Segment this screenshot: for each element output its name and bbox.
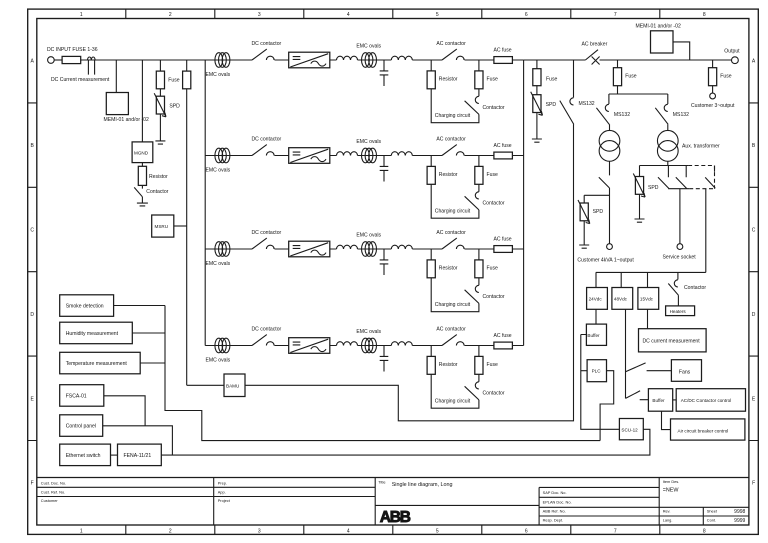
AC breaker	[585, 50, 599, 65]
svg-text:FENA-11/21: FENA-11/21	[124, 453, 152, 459]
svg-text:C: C	[752, 228, 756, 234]
svg-text:Resistor: Resistor	[149, 174, 168, 180]
AC SPD branch fuse	[536, 60, 538, 95]
svg-text:C: C	[30, 228, 34, 234]
24Vdc supply box	[595, 272, 597, 287]
svg-text:2: 2	[169, 528, 172, 534]
MS132 contactor Q3	[655, 104, 668, 124]
wire to MGND	[141, 60, 143, 142]
converter row 2	[205, 137, 523, 219]
FSCA-01 box	[60, 385, 104, 407]
wire MSRU to bus	[174, 225, 187, 227]
svg-text:PLC: PLC	[592, 369, 602, 374]
svg-text:BAMU: BAMU	[226, 384, 239, 389]
svg-text:A: A	[31, 59, 35, 65]
Buffer 2 box	[648, 389, 672, 412]
svg-text:Control panel: Control panel	[66, 424, 96, 430]
svg-text:Output: Output	[724, 49, 740, 55]
svg-text:B: B	[752, 143, 756, 149]
FENA to SCU wire	[161, 429, 650, 455]
svg-text:5: 5	[436, 528, 439, 534]
svg-text:Cust. Doc. No.: Cust. Doc. No.	[41, 480, 66, 485]
svg-text:Sheet: Sheet	[707, 509, 718, 514]
svg-text:D: D	[752, 312, 756, 318]
customer 1ph terminal	[607, 244, 613, 250]
service SPD	[639, 166, 641, 177]
DC current measurement box	[647, 309, 649, 328]
svg-text:SPD: SPD	[546, 102, 557, 108]
Humidity measurement box	[60, 322, 133, 344]
wire	[132, 332, 165, 334]
wire to MEMI-01	[115, 60, 117, 93]
converter row 1	[205, 41, 523, 123]
svg-text:MGND: MGND	[134, 151, 149, 156]
svg-text:9998: 9998	[734, 509, 745, 515]
svg-text:Lang.: Lang.	[663, 518, 673, 523]
svg-text:=NEW: =NEW	[663, 487, 680, 493]
border column ticks bottom	[126, 525, 660, 534]
wire	[111, 454, 118, 456]
svg-text:Fans: Fans	[679, 369, 691, 375]
svg-text:Contactor: Contactor	[146, 189, 168, 195]
PLC right wire	[600, 371, 614, 441]
svg-text:4: 4	[347, 528, 350, 534]
svg-text:A: A	[752, 59, 756, 65]
svg-text:Customer 3~output: Customer 3~output	[691, 103, 735, 109]
svg-text:9999: 9999	[734, 518, 745, 524]
svg-text:SCU-12: SCU-12	[621, 428, 638, 433]
svg-text:Item Des.: Item Des.	[663, 479, 680, 484]
svg-text:ABB: ABB	[380, 509, 411, 526]
transformer T2 aux	[667, 124, 669, 130]
svg-text:App.: App.	[218, 490, 226, 495]
svg-text:3: 3	[258, 528, 261, 534]
svg-text:Service socket: Service socket	[663, 255, 697, 261]
AC SPD	[531, 92, 543, 116]
Ethernet switch box	[60, 444, 111, 466]
Temperature measurement box	[60, 352, 141, 374]
svg-text:SPD: SPD	[169, 104, 180, 110]
svg-text:7: 7	[614, 528, 617, 534]
AC/DC contactor control box	[676, 389, 745, 412]
svg-text:DC current measurement: DC current measurement	[643, 338, 701, 344]
svg-text:SAP Doc. No.: SAP Doc. No.	[543, 490, 567, 495]
wire FSCA	[104, 396, 145, 426]
svg-text:EPLAN Doc. No.: EPLAN Doc. No.	[543, 500, 572, 505]
svg-text:Air circuit breaker control: Air circuit breaker control	[678, 429, 729, 434]
row letters left	[30, 59, 34, 487]
Air circuit breaker control box	[671, 419, 745, 440]
BAMU box	[224, 374, 245, 397]
MEMI-01 box	[106, 93, 128, 115]
MGND resistor	[141, 163, 143, 189]
transformer T1	[608, 124, 611, 130]
service socket bus	[668, 188, 689, 190]
svg-text:Customer 4kVA 1~output: Customer 4kVA 1~output	[577, 257, 634, 263]
ground	[159, 114, 161, 141]
svg-text:Rev.: Rev.	[663, 509, 671, 514]
splitter wire	[609, 94, 668, 104]
BAMU right wire to bus	[245, 124, 574, 421]
svg-text:6: 6	[525, 528, 528, 534]
svg-text:1: 1	[80, 12, 83, 18]
svg-text:Humidity measurement: Humidity measurement	[66, 331, 119, 337]
Smoke detection box	[60, 295, 114, 317]
title block verticals	[214, 478, 704, 526]
row letters right	[752, 59, 756, 487]
svg-text:MS132: MS132	[579, 101, 595, 107]
border column ticks top	[126, 9, 660, 18]
MEMI wire	[673, 42, 690, 60]
15Vdc supply box	[647, 272, 649, 287]
svg-text:DC Current measurement: DC Current measurement	[51, 77, 110, 83]
T2 bottom wire	[640, 161, 689, 165]
converter row 4	[205, 327, 523, 409]
DC current measurement CT	[88, 57, 96, 75]
svg-text:Buffer: Buffer	[587, 333, 600, 338]
customer 3ph terminal	[710, 93, 716, 99]
svg-text:Cust. Ref. No.: Cust. Ref. No.	[41, 490, 65, 495]
wire control panel	[103, 426, 173, 455]
svg-text:AC/DC Contactor control: AC/DC Contactor control	[681, 398, 732, 403]
main AC bus	[524, 59, 732, 61]
buffer2 right wire	[673, 399, 677, 401]
svg-text:Single line diagram, Long: Single line diagram, Long	[392, 482, 453, 488]
svg-text:Title: Title	[378, 480, 385, 485]
svg-text:AC breaker: AC breaker	[582, 41, 608, 47]
buffer left wire	[581, 335, 620, 430]
svg-text:E: E	[31, 396, 35, 402]
svg-text:4: 4	[347, 12, 350, 18]
svg-text:24Vdc: 24Vdc	[589, 297, 603, 302]
svg-text:F: F	[31, 481, 34, 487]
svg-text:Fuse: Fuse	[625, 74, 636, 80]
48V down wire	[625, 309, 627, 398]
DC SPD	[154, 93, 166, 117]
wire	[54, 59, 62, 61]
title block horizontals	[37, 487, 749, 516]
dashed switch blade	[705, 166, 715, 189]
converter row 3	[205, 230, 523, 312]
svg-text:Fuse: Fuse	[720, 74, 731, 80]
Control panel box	[60, 415, 103, 437]
FENA-11/21 box	[118, 444, 162, 466]
svg-text:Resp. Dept.: Resp. Dept.	[543, 518, 564, 523]
svg-text:7: 7	[614, 12, 617, 18]
svg-text:Heaters: Heaters	[670, 309, 687, 314]
buffer2 switch	[626, 391, 649, 400]
svg-text:F: F	[752, 481, 755, 487]
svg-text:2: 2	[169, 12, 172, 18]
svg-text:5: 5	[436, 12, 439, 18]
svg-text:DC INPUT FUSE 1-36: DC INPUT FUSE 1-36	[47, 47, 98, 53]
MGND contactor	[134, 187, 142, 196]
column numbers bottom	[80, 528, 706, 534]
border row ticks right	[749, 103, 758, 441]
customer SPD tee	[584, 195, 609, 203]
svg-text:MS132: MS132	[673, 112, 689, 118]
column numbers top	[80, 12, 706, 18]
transformer fuse	[617, 60, 619, 94]
svg-text:Customer: Customer	[41, 498, 59, 503]
MEMI-01 top box	[651, 31, 674, 53]
svg-text:Aux. transformer: Aux. transformer	[682, 143, 720, 149]
svg-text:Cont.: Cont.	[707, 518, 716, 523]
svg-text:MEMI-01 and/or -02: MEMI-01 and/or -02	[636, 23, 681, 29]
Fans box	[671, 360, 701, 382]
customer 3ph fuse	[712, 60, 714, 93]
heaters contactor	[677, 272, 679, 279]
DC input fuse F1	[62, 56, 81, 63]
MSRU box	[152, 215, 174, 237]
fans switch	[626, 363, 672, 372]
ground	[141, 197, 143, 203]
svg-text:Contactor: Contactor	[684, 285, 706, 291]
svg-text:Buffer: Buffer	[652, 398, 665, 403]
svg-text:Fuse: Fuse	[168, 78, 179, 84]
service socket switch poles	[658, 166, 687, 189]
Buffer 1 box	[595, 309, 597, 324]
svg-text:8: 8	[703, 12, 706, 18]
svg-text:Temperature measurement: Temperature measurement	[66, 361, 128, 367]
svg-text:15Vdc: 15Vdc	[640, 297, 654, 302]
SCU-12 box	[619, 419, 643, 440]
svg-text:Fuse: Fuse	[546, 76, 557, 82]
wire	[114, 305, 165, 307]
sensor collector wire	[165, 306, 600, 441]
wire	[81, 59, 252, 61]
MGND box	[132, 142, 153, 163]
Heaters box	[677, 295, 679, 306]
svg-text:1: 1	[80, 528, 83, 534]
svg-text:Prep.: Prep.	[218, 480, 227, 485]
distribution feed wire	[596, 189, 706, 273]
PLC box	[587, 360, 606, 382]
ground	[536, 113, 538, 140]
wire	[140, 362, 165, 364]
BAMU left wire	[187, 384, 224, 386]
DC fuse F3	[186, 60, 188, 385]
svg-text:Ethernet switch: Ethernet switch	[66, 453, 101, 459]
ground	[583, 221, 585, 245]
title block frame	[37, 477, 749, 479]
svg-text:SPD: SPD	[593, 209, 604, 215]
svg-text:B: B	[31, 143, 35, 149]
svg-text:SPD: SPD	[648, 185, 659, 191]
DC feed line to rows	[204, 60, 206, 346]
svg-text:3: 3	[258, 12, 261, 18]
dashed extension	[688, 166, 714, 189]
svg-text:E: E	[752, 396, 756, 402]
DC input terminal	[48, 57, 55, 64]
svg-text:MSRU: MSRU	[155, 224, 169, 229]
svg-text:Project: Project	[218, 498, 231, 503]
T1 output switch	[599, 161, 610, 244]
DC fuse F2	[159, 60, 161, 96]
PLC left wire	[581, 370, 587, 372]
MS132 contactor Q1	[573, 60, 575, 98]
buffer2 bottom wire	[662, 411, 671, 429]
svg-text:48Vdc: 48Vdc	[614, 297, 628, 302]
svg-text:MS132: MS132	[614, 112, 630, 118]
svg-text:8: 8	[703, 528, 706, 534]
MS132 contactor Q2	[596, 104, 609, 124]
AC collector line	[523, 60, 525, 346]
border row ticks left	[28, 103, 37, 441]
Output terminal	[732, 57, 739, 64]
svg-text:Smoke detection: Smoke detection	[66, 304, 104, 310]
48Vdc supply box	[620, 272, 622, 287]
svg-text:D: D	[30, 312, 34, 318]
service socket terminal	[679, 189, 681, 244]
customer SPD	[578, 200, 590, 224]
svg-text:6: 6	[525, 12, 528, 18]
svg-text:ABB Ref. No.: ABB Ref. No.	[543, 509, 566, 514]
svg-text:FSCA-01: FSCA-01	[66, 393, 87, 399]
ground	[639, 194, 641, 219]
